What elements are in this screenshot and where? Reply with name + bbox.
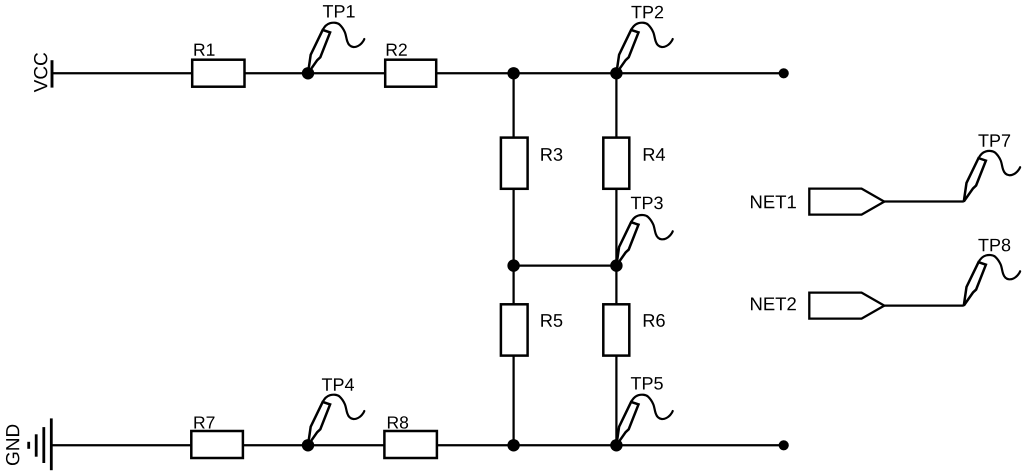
resistor R5 — [501, 304, 562, 355]
resistor R7 — [191, 416, 243, 458]
test point TP7 — [964, 134, 1020, 201]
resistor R6 — [603, 304, 664, 355]
wire column B middle — [615, 189, 617, 304]
node top rail right end — [779, 68, 789, 78]
test point TP1 — [308, 5, 364, 73]
wire top rail left — [52, 72, 193, 74]
test point TP4 — [308, 378, 364, 445]
junction node middle rail column A — [507, 259, 519, 271]
test point TP3 — [616, 197, 672, 266]
wire column A upper — [512, 73, 514, 137]
wire column A middle — [512, 189, 514, 304]
wire column A lower — [512, 356, 514, 446]
wire bottom rail right — [437, 444, 783, 446]
node bottom rail right end — [779, 440, 789, 450]
wire bottom rail left — [52, 444, 192, 446]
ground GND — [6, 418, 51, 470]
net label NET2 — [751, 293, 884, 319]
resistor R4 — [603, 138, 665, 189]
power symbol VCC — [34, 53, 52, 92]
net label NET1 — [751, 189, 884, 215]
wire NET1 — [884, 200, 964, 202]
junction node bottom rail / TP4 — [302, 439, 314, 451]
wire bottom rail mid — [243, 444, 385, 446]
junction node top rail / TP1 — [302, 67, 314, 79]
junction node middle rail column B / TP3 — [610, 259, 622, 271]
resistor R1 — [192, 44, 244, 87]
junction node bottom rail column A — [507, 439, 519, 451]
wire NET2 — [884, 304, 964, 306]
resistor R8 — [384, 416, 437, 458]
test point TP5 — [616, 377, 672, 445]
resistor R2 — [385, 43, 436, 86]
wire top rail right — [436, 72, 783, 74]
wire column B lower — [615, 356, 617, 446]
test point TP2 — [616, 6, 672, 74]
junction node top rail column B / TP2 — [610, 67, 622, 79]
resistor R3 — [501, 138, 562, 189]
junction node top rail column A — [507, 67, 519, 79]
wire middle rail — [514, 264, 617, 266]
wire column B upper — [615, 73, 617, 137]
wire top rail mid — [245, 72, 386, 74]
junction node bottom rail column B / TP5 — [610, 439, 622, 451]
test point TP8 — [964, 239, 1020, 306]
